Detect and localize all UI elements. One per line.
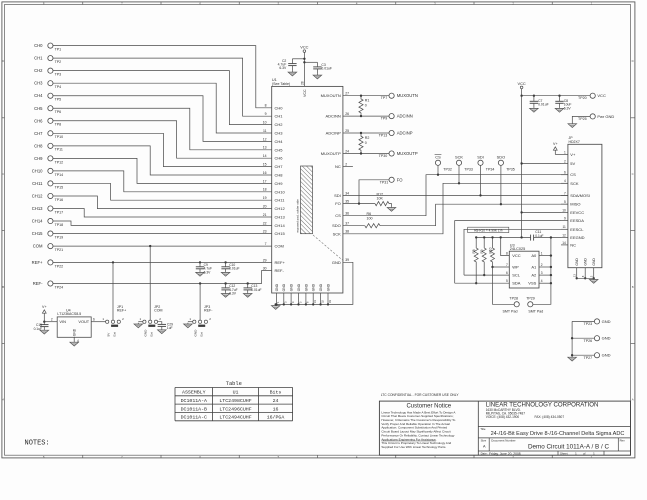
svg-text:30: 30 xyxy=(263,267,267,271)
svg-text:7: 7 xyxy=(265,242,267,246)
svg-text:R1: R1 xyxy=(365,99,370,103)
svg-text:GND: GND xyxy=(584,258,588,266)
svg-text:21: 21 xyxy=(263,213,267,217)
svg-text:C: C xyxy=(632,172,634,176)
svg-text:TP14: TP14 xyxy=(55,173,64,177)
svg-text:Pwr GND: Pwr GND xyxy=(597,114,614,119)
svg-text:SMT Pad: SMT Pad xyxy=(528,309,543,313)
svg-text:FO: FO xyxy=(335,201,341,206)
svg-text:CH12: CH12 xyxy=(275,206,286,211)
svg-text:GND: GND xyxy=(290,283,294,291)
svg-text:V+: V+ xyxy=(553,142,558,146)
svg-text:SCK: SCK xyxy=(570,181,579,186)
svg-text:VOICE: (408) 432-1900: VOICE: (408) 432-1900 xyxy=(486,415,520,419)
svg-text:CH10: CH10 xyxy=(275,189,286,194)
svg-text:8: 8 xyxy=(265,104,267,108)
svg-text:16: 16 xyxy=(273,406,279,412)
svg-text:COM: COM xyxy=(154,309,162,313)
svg-text:EEVCC: EEVCC xyxy=(570,210,584,215)
svg-text:SCL: SCL xyxy=(512,273,521,278)
svg-text:TP11: TP11 xyxy=(55,148,63,152)
svg-text:CS: CS xyxy=(570,172,576,177)
svg-text:TP18: TP18 xyxy=(55,223,64,227)
svg-text:0.01uF: 0.01uF xyxy=(321,66,332,70)
svg-text:14: 14 xyxy=(562,241,566,245)
svg-text:ADCINN: ADCINN xyxy=(325,114,340,119)
svg-text:Demo Circuit 1011A-A / B / C: Demo Circuit 1011A-A / B / C xyxy=(528,443,610,450)
svg-text:SDO: SDO xyxy=(332,223,341,228)
svg-text:CH9: CH9 xyxy=(34,156,43,161)
svg-text:TP23: TP23 xyxy=(584,322,593,326)
svg-text:U1: U1 xyxy=(233,390,239,396)
svg-text:CH15: CH15 xyxy=(32,231,43,236)
svg-text:TP28: TP28 xyxy=(509,297,518,301)
svg-text:1: 1 xyxy=(593,452,595,456)
svg-text:R8: R8 xyxy=(472,249,476,253)
svg-text:CH2: CH2 xyxy=(34,68,43,73)
svg-text:Customer Notice: Customer Notice xyxy=(406,404,451,410)
svg-text:5V: 5V xyxy=(570,161,575,166)
svg-text:CH4: CH4 xyxy=(275,139,284,144)
svg-text:CS: CS xyxy=(435,155,441,160)
svg-text:TP21: TP21 xyxy=(55,248,64,252)
svg-text:CH12: CH12 xyxy=(32,193,43,198)
svg-text:1: 1 xyxy=(564,150,566,154)
svg-text:10: 10 xyxy=(263,121,267,125)
svg-text:DC1011A-B: DC1011A-B xyxy=(181,406,207,412)
svg-text:6.3V: 6.3V xyxy=(204,270,212,274)
svg-text:CH3: CH3 xyxy=(34,81,43,86)
svg-text:CH11: CH11 xyxy=(275,198,286,203)
svg-text:CH2: CH2 xyxy=(275,122,284,127)
svg-text:R2: R2 xyxy=(365,136,370,140)
svg-text:TP24: TP24 xyxy=(55,285,64,289)
svg-text:TP29: TP29 xyxy=(526,297,535,301)
svg-text:ADCINP: ADCINP xyxy=(326,131,341,136)
svg-text:TP35: TP35 xyxy=(506,167,515,171)
svg-text:TP34: TP34 xyxy=(486,167,495,171)
svg-text:0: 0 xyxy=(365,104,367,108)
svg-text:9: 9 xyxy=(564,217,566,221)
svg-text:GND: GND xyxy=(304,283,308,291)
svg-text:Friday, June 20, 2008: Friday, June 20, 2008 xyxy=(489,452,521,456)
svg-text:11: 11 xyxy=(562,225,566,229)
svg-text:9: 9 xyxy=(265,112,267,116)
svg-text:VCC: VCC xyxy=(300,45,308,50)
svg-text:TP9: TP9 xyxy=(381,117,388,121)
svg-text:SDI: SDI xyxy=(477,155,484,160)
svg-text:TP27: TP27 xyxy=(584,356,593,360)
svg-text:MUXOUTP: MUXOUTP xyxy=(321,151,341,156)
svg-text:VSS: VSS xyxy=(528,281,536,286)
svg-text:ASSEMBLY: ASSEMBLY xyxy=(182,390,206,396)
svg-text:VCC: VCC xyxy=(303,89,307,97)
svg-text:of: of xyxy=(583,452,586,456)
svg-text:6.3V: 6.3V xyxy=(229,291,237,295)
svg-text:Date:: Date: xyxy=(481,452,488,456)
svg-text:10: 10 xyxy=(562,208,566,212)
svg-text:6: 6 xyxy=(506,271,508,275)
svg-text:GND: GND xyxy=(326,283,330,291)
svg-text:13: 13 xyxy=(573,274,577,278)
svg-text:TP12: TP12 xyxy=(55,160,64,164)
svg-text:DC1011A-C: DC1011A-C xyxy=(181,415,207,421)
svg-text:2: 2 xyxy=(51,318,53,322)
svg-text:GND: GND xyxy=(592,258,596,266)
svg-text:A: A xyxy=(632,398,634,402)
svg-text:CH6: CH6 xyxy=(275,156,284,161)
svg-text:Supplied For Use With Linear T: Supplied For Use With Linear Technology … xyxy=(381,445,446,449)
svg-text:TP20: TP20 xyxy=(578,96,587,100)
svg-text:29: 29 xyxy=(263,258,267,262)
svg-text:Document Number: Document Number xyxy=(491,439,515,443)
svg-text:GND: GND xyxy=(194,329,198,337)
svg-text:FAX: (408) 434-0507: FAX: (408) 434-0507 xyxy=(535,415,565,419)
svg-text:1: 1 xyxy=(541,252,543,256)
svg-text:26: 26 xyxy=(345,112,349,116)
svg-text:TP32: TP32 xyxy=(443,167,452,171)
svg-text:37: 37 xyxy=(345,222,349,226)
svg-text:LTC CONFIDENTIAL - FOR CUSTOME: LTC CONFIDENTIAL - FOR CUSTOMER USE ONLY xyxy=(381,393,460,397)
svg-text:D: D xyxy=(2,59,4,63)
svg-text:REF+: REF+ xyxy=(275,260,286,265)
svg-text:REF+: REF+ xyxy=(32,260,43,265)
svg-text:GND: GND xyxy=(332,260,341,265)
svg-text:NC: NC xyxy=(570,242,576,247)
svg-text:GND: GND xyxy=(602,319,611,324)
svg-text:A1: A1 xyxy=(531,265,537,270)
svg-text:CH4: CH4 xyxy=(34,93,43,98)
svg-text:CH11: CH11 xyxy=(32,181,43,186)
svg-text:14: 14 xyxy=(263,154,267,158)
svg-text:SDA: SDA xyxy=(512,281,521,286)
svg-text:18: 18 xyxy=(263,188,267,192)
svg-text:Ext: Ext xyxy=(150,332,154,337)
svg-text:5: 5 xyxy=(506,279,508,283)
svg-text:TP7: TP7 xyxy=(381,96,388,100)
svg-text:REF-: REF- xyxy=(33,281,43,286)
svg-text:FO: FO xyxy=(397,177,404,182)
svg-text:B: B xyxy=(2,285,4,289)
svg-text:R10: R10 xyxy=(488,247,492,253)
svg-text:Bits: Bits xyxy=(270,390,282,396)
svg-text:D: D xyxy=(632,59,634,63)
svg-text:CH8: CH8 xyxy=(275,173,284,178)
svg-text:EEGND: EEGND xyxy=(570,235,584,240)
svg-text:36: 36 xyxy=(345,212,349,216)
svg-text:CH14: CH14 xyxy=(32,219,43,224)
svg-text:V+: V+ xyxy=(570,152,576,157)
svg-text:V+: V+ xyxy=(42,305,47,309)
svg-text:ADCINN: ADCINN xyxy=(397,114,413,119)
svg-text:Ext: Ext xyxy=(200,332,204,337)
svg-text:0: 0 xyxy=(365,141,367,145)
svg-text:TP25: TP25 xyxy=(578,117,587,121)
svg-text:Title: Title xyxy=(480,427,486,431)
svg-text:LTC2498CUHF: LTC2498CUHF xyxy=(219,398,251,404)
svg-text:0.01uF: 0.01uF xyxy=(538,103,549,107)
svg-text:TP3: TP3 xyxy=(55,73,62,77)
svg-text:GND: GND xyxy=(602,353,611,358)
svg-text:GND: GND xyxy=(73,328,77,336)
svg-text:TP17: TP17 xyxy=(55,210,64,214)
svg-text:COM: COM xyxy=(33,244,43,249)
svg-text:0.1uF: 0.1uF xyxy=(34,327,42,331)
svg-text:CH5: CH5 xyxy=(275,147,284,152)
svg-text:6: 6 xyxy=(564,171,566,175)
svg-text:GND: GND xyxy=(144,329,148,337)
svg-text:COM: COM xyxy=(275,244,284,249)
svg-text:ADCINP: ADCINP xyxy=(397,131,413,136)
svg-text:23: 23 xyxy=(263,230,267,234)
svg-text:1uF: 1uF xyxy=(167,326,173,330)
svg-text:TP13: TP13 xyxy=(379,133,388,137)
svg-text:24: 24 xyxy=(345,149,349,153)
svg-text:TP15: TP15 xyxy=(55,185,64,189)
svg-text:SCK: SCK xyxy=(333,231,342,236)
svg-text:EESDA: EESDA xyxy=(570,218,584,223)
svg-text:A2: A2 xyxy=(531,273,537,278)
svg-text:CH6: CH6 xyxy=(34,118,43,123)
svg-text:VCC: VCC xyxy=(597,93,606,98)
svg-text:6.3V: 6.3V xyxy=(564,106,572,110)
svg-text:12: 12 xyxy=(562,233,566,237)
svg-text:VCC: VCC xyxy=(517,81,525,86)
svg-text:CH9: CH9 xyxy=(275,181,284,186)
svg-text:A0: A0 xyxy=(531,253,537,258)
svg-text:CH5: CH5 xyxy=(34,106,43,111)
svg-text:A: A xyxy=(2,398,4,402)
svg-text:SDO: SDO xyxy=(497,155,505,160)
svg-text:TP5: TP5 xyxy=(55,98,62,102)
svg-text:8: 8 xyxy=(506,252,508,256)
svg-text:7: 7 xyxy=(564,191,566,195)
svg-text:REF-: REF- xyxy=(204,309,213,313)
svg-text:Ext: Ext xyxy=(113,332,117,337)
svg-text:10K: 10K xyxy=(377,197,384,201)
svg-text:35: 35 xyxy=(345,200,349,204)
svg-text:R8-R10 = 4.99K 1%: R8-R10 = 4.99K 1% xyxy=(474,228,503,232)
svg-text:38: 38 xyxy=(345,230,349,234)
svg-text:0.1uF: 0.1uF xyxy=(535,234,543,238)
svg-text:MUXOUTN: MUXOUTN xyxy=(397,93,418,98)
svg-text:REF+: REF+ xyxy=(117,309,126,313)
svg-text:22: 22 xyxy=(263,221,267,225)
svg-text:25: 25 xyxy=(345,129,349,133)
svg-text:CH7: CH7 xyxy=(275,164,284,169)
svg-text:R9: R9 xyxy=(480,249,484,253)
svg-text:12: 12 xyxy=(263,137,267,141)
svg-text:CH13: CH13 xyxy=(32,206,43,211)
svg-text:16/PGA: 16/PGA xyxy=(267,415,285,421)
svg-text:GND: GND xyxy=(575,258,579,266)
svg-text:CH10: CH10 xyxy=(32,168,43,173)
svg-text:GND: GND xyxy=(275,283,279,291)
svg-text:TP2: TP2 xyxy=(55,60,62,64)
svg-text:1: 1 xyxy=(575,452,577,456)
svg-text:6.3V: 6.3V xyxy=(279,66,287,70)
svg-text:R6: R6 xyxy=(367,212,372,216)
svg-text:TP1: TP1 xyxy=(55,48,62,52)
svg-text:Rev: Rev xyxy=(620,439,626,443)
svg-text:CH1: CH1 xyxy=(34,56,43,61)
svg-text:2: 2 xyxy=(541,263,543,267)
svg-text:Table: Table xyxy=(226,381,242,387)
svg-text:4: 4 xyxy=(541,279,543,283)
svg-text:GND: GND xyxy=(282,283,286,291)
svg-text:SDI: SDI xyxy=(334,193,341,198)
svg-text:REF-: REF- xyxy=(275,268,285,273)
svg-text:GND: GND xyxy=(297,283,301,291)
svg-text:CH13: CH13 xyxy=(275,215,286,220)
svg-text:EESCL: EESCL xyxy=(570,227,584,232)
svg-text:MISO: MISO xyxy=(570,202,580,207)
svg-text:TP19: TP19 xyxy=(55,235,64,239)
svg-text:SCK: SCK xyxy=(455,155,463,160)
svg-text:SDA/MOSI: SDA/MOSI xyxy=(570,193,590,198)
svg-text:(See Table): (See Table) xyxy=(272,82,290,86)
svg-text:HD2X7: HD2X7 xyxy=(569,140,580,144)
svg-text:CH3: CH3 xyxy=(275,131,284,136)
svg-text:CS: CS xyxy=(335,213,341,218)
svg-text:MUXOUTN: MUXOUTN xyxy=(321,93,341,98)
svg-text:15: 15 xyxy=(263,163,267,167)
svg-text:LTC2494CUHF: LTC2494CUHF xyxy=(219,415,251,421)
svg-text:TP33: TP33 xyxy=(464,167,473,171)
svg-text:TP8: TP8 xyxy=(55,123,62,127)
svg-text:CH1: CH1 xyxy=(275,114,284,119)
svg-text:11: 11 xyxy=(263,129,267,133)
svg-text:20: 20 xyxy=(263,205,267,209)
svg-text:CH7: CH7 xyxy=(34,131,43,136)
svg-text:WP: WP xyxy=(512,265,519,270)
svg-text:B: B xyxy=(632,285,634,289)
svg-text:2: 2 xyxy=(564,159,566,163)
svg-text:24: 24 xyxy=(273,398,279,404)
svg-text:0.01uF: 0.01uF xyxy=(229,267,239,271)
svg-text:28: 28 xyxy=(301,81,305,85)
svg-text:TP30: TP30 xyxy=(379,154,388,158)
svg-text:Size: Size xyxy=(481,439,487,443)
svg-text:NOTES:: NOTES: xyxy=(25,439,50,447)
svg-text:39: 39 xyxy=(345,258,349,262)
svg-text:NC: NC xyxy=(335,164,341,169)
svg-text:exposed pad, solder side: exposed pad, solder side xyxy=(295,199,299,233)
svg-text:LT1236ACS8-5: LT1236ACS8-5 xyxy=(57,312,81,316)
svg-text:34: 34 xyxy=(345,191,349,195)
svg-text:TP16: TP16 xyxy=(55,198,64,202)
svg-text:3: 3 xyxy=(541,271,543,275)
svg-text:DC1011A-A: DC1011A-A xyxy=(181,398,207,404)
svg-text:2: 2 xyxy=(345,162,347,166)
svg-text:SMT Pad: SMT Pad xyxy=(503,309,518,313)
svg-text:CH0: CH0 xyxy=(275,105,284,110)
svg-text:VCC: VCC xyxy=(512,253,521,258)
svg-text:GND: GND xyxy=(602,336,611,341)
svg-text:16: 16 xyxy=(263,171,267,175)
svg-text:CH15: CH15 xyxy=(275,231,286,236)
svg-text:TP26: TP26 xyxy=(584,339,593,343)
svg-text:Sheet: Sheet xyxy=(560,452,568,456)
svg-text:13: 13 xyxy=(263,146,267,150)
svg-text:TP10: TP10 xyxy=(55,135,64,139)
svg-text:GND: GND xyxy=(319,283,323,291)
svg-text:TP6: TP6 xyxy=(55,110,62,114)
svg-text:MUXOUTP: MUXOUTP xyxy=(397,151,418,156)
svg-text:TP22: TP22 xyxy=(55,264,64,268)
svg-text:4: 4 xyxy=(564,179,566,183)
svg-text:5: 5 xyxy=(564,200,566,204)
svg-text:LTC2496CUHF: LTC2496CUHF xyxy=(219,406,251,412)
svg-text:17: 17 xyxy=(263,179,267,183)
svg-text:100: 100 xyxy=(367,217,373,221)
svg-text:6: 6 xyxy=(93,318,95,322)
svg-text:27: 27 xyxy=(345,92,349,96)
svg-text:VOUT: VOUT xyxy=(78,319,89,324)
svg-text:GND: GND xyxy=(312,283,316,291)
svg-text:19: 19 xyxy=(263,196,267,200)
svg-text:4: 4 xyxy=(77,339,79,343)
svg-text:TP4: TP4 xyxy=(55,85,62,89)
svg-text:CH14: CH14 xyxy=(275,223,286,228)
svg-text:CH0: CH0 xyxy=(34,43,43,48)
svg-text:CH8: CH8 xyxy=(34,143,43,148)
svg-text:0.01uF: 0.01uF xyxy=(251,288,261,292)
svg-text:24LC025: 24LC025 xyxy=(510,247,525,251)
svg-text:7: 7 xyxy=(506,263,508,267)
svg-text:C: C xyxy=(2,172,4,176)
svg-text:TP31: TP31 xyxy=(380,180,389,184)
svg-text:24-/16-Bit Easy Drive 8-/16-Ch: 24-/16-Bit Easy Drive 8-/16-Channel Delt… xyxy=(491,431,625,437)
svg-text:VIN: VIN xyxy=(59,319,66,324)
